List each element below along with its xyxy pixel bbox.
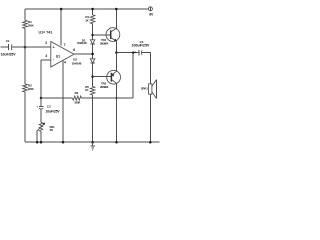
svg-text:+: +: [134, 50, 136, 54]
wire pin7 to rail: [60, 9, 62, 45]
node pin3 feedback junction: [40, 97, 43, 100]
wire VR1 to rail: [40, 132, 42, 143]
wire node to pin2: [25, 46, 51, 48]
svg-text:10uF/25V: 10uF/25V: [46, 110, 61, 114]
wire output to C3: [116, 52, 138, 54]
wire C3 to speaker: [142, 52, 150, 54]
node Q2 base junction: [91, 75, 94, 78]
wire input: [1, 46, 9, 48]
svg-text:C2: C2: [47, 105, 51, 109]
potentiometer VR1 5K: [39, 122, 43, 131]
wire R5 to rail: [92, 95, 94, 142]
svg-text:SPK1: SPK1: [141, 87, 149, 91]
node diode mid junction: [91, 53, 94, 56]
op-amp U1 741: [51, 42, 74, 68]
svg-text:U1: U1: [56, 54, 60, 58]
svg-text:10uF/25V: 10uF/25V: [1, 52, 17, 56]
svg-text:2N3904: 2N3904: [100, 41, 109, 45]
wire left column top: [24, 9, 26, 20]
resistor R2 100K: [23, 84, 28, 92]
wire feedback right: [82, 97, 134, 99]
svg-text:1N4148: 1N4148: [72, 61, 82, 65]
wire VR1 wiper return: [36, 131, 38, 143]
wire pin6 output: [74, 53, 93, 55]
transistor TR2 2N3906: [107, 70, 121, 84]
resistor R4 1K: [90, 15, 95, 24]
wire pin4 to bottom rail: [62, 60, 64, 142]
svg-text:C1: C1: [6, 39, 10, 43]
wire bottom ground rail: [25, 141, 160, 143]
wire Q1 base: [93, 34, 111, 36]
svg-text:R3: R3: [75, 91, 79, 95]
node pin4 rail junction: [62, 141, 65, 144]
svg-text:2N3906: 2N3906: [100, 85, 109, 89]
svg-text:+: +: [53, 45, 55, 49]
wire pin3 stub: [41, 59, 51, 61]
diode D1 1N4148: [90, 40, 95, 44]
wire Q2 base: [93, 76, 112, 78]
wire feedback left: [41, 97, 73, 99]
node speaker rail junction: [149, 141, 152, 144]
power terminal 6V: [148, 7, 152, 11]
svg-text:100uF/25V: 100uF/25V: [132, 44, 150, 48]
wire C1 to node: [12, 46, 25, 48]
node output emitters junction: [115, 51, 118, 54]
wire Q1 collector to rail: [115, 9, 117, 28]
svg-text:3: 3: [45, 54, 47, 58]
resistor R1 100K: [23, 20, 28, 28]
wire Q2 collector to rail: [116, 83, 118, 142]
svg-text:2: 2: [45, 41, 47, 45]
wire C2 to VR1: [40, 109, 42, 122]
wire Q2 emitter to output node: [116, 53, 118, 72]
transistor TR1 2N3904: [106, 28, 120, 42]
svg-text:4: 4: [64, 60, 66, 64]
wire D2 to Q2 base node: [92, 63, 94, 86]
capacitor C2 10uF/25V: [40, 98, 42, 107]
node Q1 collector rail junction: [115, 8, 118, 11]
junction feedback crossing: [116, 97, 118, 99]
node Q1 base junction: [91, 34, 94, 37]
node VR1 rail junction: [40, 141, 43, 144]
wire D1 to output junction: [92, 44, 94, 59]
capacitor C3 100uF/25V: [138, 50, 140, 55]
wire R2 to bottom rail corner: [24, 92, 26, 142]
svg-text:7: 7: [64, 43, 66, 47]
wire R1 to input node: [24, 28, 26, 47]
node pin7 rail junction: [60, 8, 63, 11]
diode D2 1N4148: [90, 59, 95, 63]
node R5 rail junction: [91, 141, 94, 144]
wire Q1 emitter to output node: [115, 41, 117, 53]
speaker SPK1: [149, 84, 152, 94]
svg-text:1N4148: 1N4148: [77, 41, 87, 45]
capacitor C1 10uF/25V: [8, 44, 10, 50]
wire speaker to rail: [149, 94, 151, 142]
wire R4 to Q1 base node: [92, 24, 94, 40]
resistor R5 1K: [90, 86, 95, 95]
svg-text:U1= 741: U1= 741: [39, 30, 53, 34]
wire node to R2: [24, 47, 26, 84]
ground: [92, 142, 94, 146]
resistor R3 100K: [73, 96, 82, 100]
node Q2 collector rail junction: [115, 141, 118, 144]
node C3 feedback junction: [132, 51, 135, 54]
node wiper rail junction: [36, 141, 39, 144]
node input junction: [24, 46, 27, 49]
wire top supply rail: [25, 8, 148, 10]
node R4 rail junction: [91, 8, 94, 11]
svg-text:6: 6: [73, 48, 75, 52]
wire rail to R4: [92, 9, 94, 15]
